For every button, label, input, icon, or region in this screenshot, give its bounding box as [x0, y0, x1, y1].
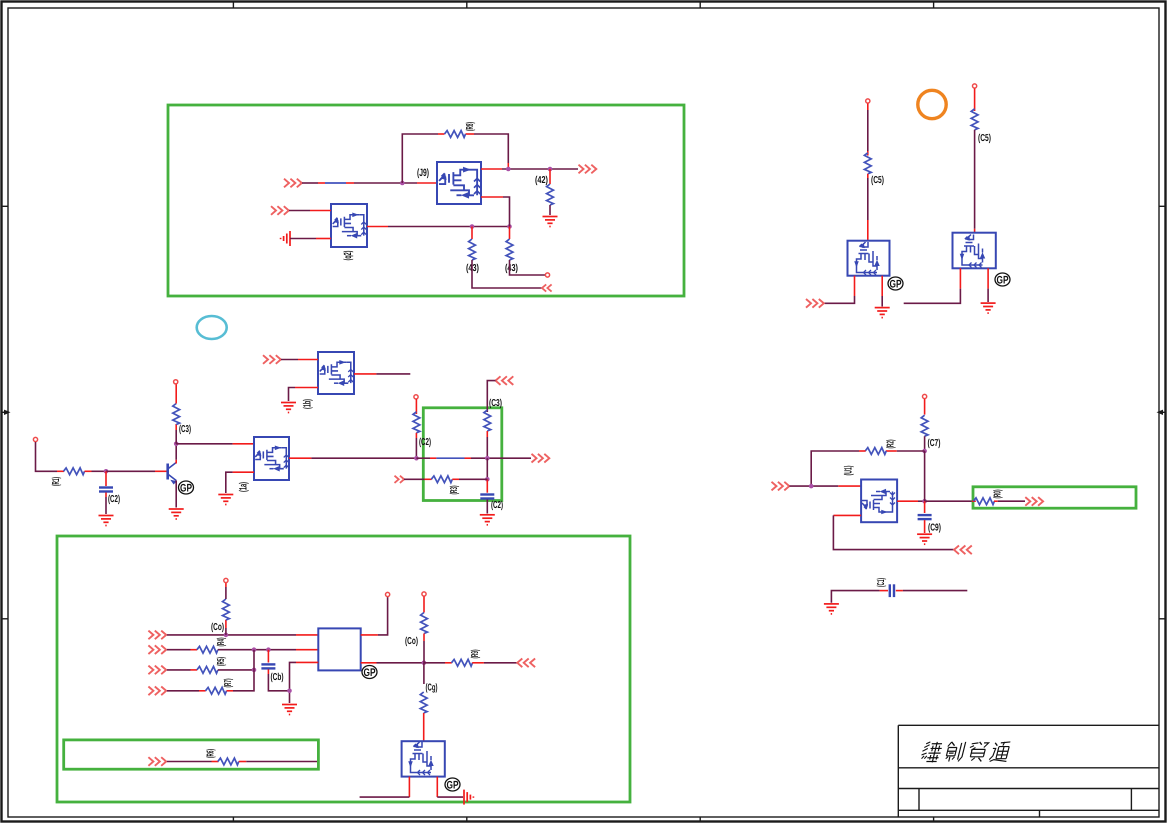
node drain junction 2	[548, 167, 553, 172]
node base junction	[104, 469, 109, 474]
green box RC	[423, 408, 502, 501]
resistor in3	[197, 667, 218, 674]
terminal B	[973, 84, 977, 88]
mosfet U right	[861, 480, 897, 523]
glyph 緯	[920, 742, 944, 762]
port chevron in top <<<	[496, 376, 514, 385]
svg-text:GP: GP	[364, 667, 376, 679]
svg-text:(C9): (C9)	[928, 523, 941, 534]
port chevron in3	[148, 666, 166, 675]
port chevron in4	[148, 687, 166, 696]
ground under C2	[99, 516, 114, 526]
node in2 j2	[266, 647, 271, 652]
svg-text:(42): (42)	[535, 175, 548, 186]
wire junction to BJT base	[106, 470, 155, 472]
wire resistor to terminal	[175, 384, 177, 404]
label GP A	[888, 277, 903, 291]
svg-text:(R8): (R8)	[465, 122, 476, 131]
svg-text:(43): (43)	[505, 263, 518, 274]
wire U pin2 loop	[833, 514, 861, 516]
wire BJT collector up	[175, 460, 177, 464]
wire in1	[167, 634, 296, 636]
svg-text:(Co): (Co)	[405, 636, 418, 647]
wire in4 to bus corner	[227, 690, 234, 692]
port chevron in1	[148, 631, 166, 640]
wire gate Q2	[289, 210, 310, 212]
resistor R42 vertical	[549, 169, 551, 184]
terminal top	[174, 380, 178, 384]
terminal A	[866, 99, 870, 103]
port chevron inner box	[148, 757, 166, 766]
svg-text:(C5): (C5)	[871, 175, 884, 186]
svg-text:(J9): (J9)	[417, 167, 429, 179]
port chevron out2 <<<	[517, 659, 535, 668]
ground emitter	[169, 509, 184, 519]
wire mid mosfet pin2 to ground	[233, 471, 254, 473]
wire BJT emitter to ground	[175, 481, 177, 508]
svg-text:(q2): (q2)	[342, 251, 354, 261]
svg-text:(1b): (1b)	[302, 399, 314, 409]
node in junction	[809, 484, 814, 489]
mosfet Q bottom	[402, 741, 445, 776]
terminal top	[923, 394, 927, 398]
wire QB pin to ground	[987, 268, 989, 288]
svg-text:(R2): (R2)	[886, 440, 897, 449]
wire pullup	[924, 399, 926, 415]
wire B down	[974, 89, 976, 112]
right ticks	[1159, 205, 1166, 207]
wire Q9 drain out	[481, 168, 502, 170]
port chevron in2	[148, 645, 166, 654]
svg-text:(R9): (R9)	[470, 650, 481, 659]
svg-text:(U1): (U1)	[843, 466, 855, 476]
glyph 創	[944, 742, 966, 762]
bottom ticks	[232, 817, 234, 822]
wire in2 to IC	[218, 649, 296, 651]
wire to junction	[85, 470, 92, 472]
wire collector resistor up	[175, 430, 177, 444]
ground rotated right	[464, 790, 473, 805]
svg-text:(C3): (C3)	[489, 398, 502, 409]
wire QA pin to ground	[881, 276, 883, 296]
series cap circuit: ground	[824, 604, 839, 614]
node junction R1v	[470, 224, 475, 229]
svg-text:(R4): (R4)	[216, 638, 227, 647]
wire mid mosfet out	[289, 457, 311, 459]
svg-text:(C3): (C3)	[179, 424, 191, 435]
svg-text:GP: GP	[180, 483, 192, 495]
ground out cap	[917, 534, 932, 544]
terminal R pullup	[414, 395, 418, 399]
svg-text:(R3): (R3)	[449, 486, 460, 495]
wire collector to mosfet gate	[176, 443, 232, 445]
wire from terminal	[36, 442, 58, 471]
wire feedback resistor	[897, 450, 925, 452]
svg-text:GP: GP	[890, 279, 902, 291]
capacitor C2 shunt	[105, 471, 107, 486]
wire IC out1 to terminal	[361, 634, 378, 636]
wire IC pin3 to ground	[296, 661, 318, 663]
resistor in2	[197, 646, 218, 653]
mosfet Q2	[331, 204, 367, 247]
wire IC out2	[361, 662, 377, 664]
mosfet U mid	[254, 437, 289, 480]
glyph 通	[989, 742, 1012, 762]
resistor B	[971, 109, 978, 130]
company logo text 緯創資通 (drawn strokes)	[920, 742, 1012, 762]
port chevron green box out	[1025, 497, 1043, 506]
resistor pullup top	[225, 628, 227, 635]
wire B to mosfet	[974, 130, 976, 229]
annotation big green box	[57, 536, 630, 802]
wire from resistor to drain node	[474, 134, 508, 163]
wire QA source to chevron	[854, 276, 856, 296]
resistor A	[864, 153, 871, 174]
svg-text:(Cg): (Cg)	[426, 683, 438, 694]
svg-text:(R0): (R0)	[993, 490, 1004, 499]
mosfet QA	[848, 241, 890, 276]
node junction R top	[922, 449, 927, 454]
resistor divider right vertical	[509, 227, 511, 240]
node out2 junction	[422, 661, 427, 666]
left mid arrow	[2, 410, 11, 415]
wire in	[790, 485, 839, 487]
wire Q2 source	[290, 238, 316, 240]
wire into green box	[972, 500, 976, 502]
wire up to feedback resistor	[402, 134, 438, 183]
resistor in4	[206, 687, 227, 694]
wire in4	[167, 690, 199, 692]
svg-text:(Cb): (Cb)	[271, 672, 284, 683]
ground B	[981, 303, 996, 313]
wire net1	[302, 182, 437, 184]
resistor divider left vertical	[471, 227, 473, 240]
transistor Q (npn)	[168, 463, 177, 485]
capacitor C bus	[267, 650, 269, 663]
node drain junction 1	[506, 167, 511, 172]
wire out2 resistor right	[424, 662, 445, 664]
wire resistor leads	[438, 133, 445, 135]
port chevron in	[772, 482, 790, 491]
wire series cap	[831, 591, 879, 603]
resistor R base	[64, 468, 85, 475]
wire out right	[925, 500, 972, 502]
wire pullup	[415, 399, 417, 414]
node junction cap	[485, 477, 490, 482]
ground IC	[282, 705, 297, 715]
node in1 junction	[224, 633, 229, 638]
svg-text:(C2): (C2)	[419, 437, 431, 448]
label GP B	[995, 273, 1010, 287]
mosfet U top-mid	[318, 352, 354, 394]
wire down to cap	[486, 458, 488, 479]
label GP bottom mosfet	[445, 778, 460, 792]
resistor inside green box	[484, 410, 491, 431]
node pin3 gnd junction	[287, 689, 292, 694]
node collector junction	[174, 442, 179, 447]
terminal pullup	[224, 578, 228, 582]
ground mid mosfet	[218, 495, 233, 505]
terminal left	[33, 437, 37, 441]
resistor R top	[445, 131, 466, 138]
ground top-mid	[281, 403, 296, 413]
capacitor out	[924, 501, 926, 513]
port chevron OUT	[579, 165, 597, 174]
resistor collector	[173, 404, 180, 425]
wire low to junction	[452, 478, 459, 480]
port chevron IN1	[284, 179, 302, 188]
wire low input	[404, 478, 425, 480]
svg-text:(R6): (R6)	[206, 749, 217, 758]
node out junction	[414, 456, 419, 461]
wire Q2 drain out	[367, 226, 388, 228]
node in3 junction	[252, 668, 257, 673]
node out junction	[922, 499, 927, 504]
wire bottom mosfet pin right to ground	[436, 777, 438, 798]
TITLE BLOCK	[898, 725, 1159, 817]
annotation inner green box	[64, 740, 319, 769]
wire in3 to bus	[218, 669, 254, 671]
wire top-mid pin2 to ground	[295, 387, 318, 389]
node junction R2v	[507, 224, 512, 229]
port chevron loop <<<	[954, 546, 972, 555]
port chevron A	[806, 299, 824, 308]
wire out net colored	[416, 457, 531, 459]
mosfet Q9	[437, 162, 481, 204]
resistor inner box	[218, 758, 239, 765]
svg-text:(C1): (C1)	[876, 578, 887, 587]
resistor low	[431, 476, 452, 483]
svg-text:(R7): (R7)	[223, 679, 234, 688]
wire in3	[167, 669, 191, 671]
wire in2	[167, 649, 191, 651]
right mid arrow	[1157, 410, 1166, 415]
wire right pullup	[423, 597, 425, 613]
wire to terminal	[510, 260, 546, 275]
svg-text:(C7): (C7)	[928, 438, 941, 449]
wire Q9 source down	[481, 196, 503, 198]
wire gate top-mid	[281, 359, 298, 361]
capacitor green box	[480, 495, 494, 499]
top ticks	[232, 2, 234, 9]
terminal IC out	[386, 592, 390, 596]
wire A down	[867, 104, 869, 111]
mosfet QB	[953, 233, 996, 269]
wire bottom mosfet source left	[408, 777, 410, 798]
annotation green box	[168, 105, 684, 296]
label GP IC	[362, 666, 377, 680]
port chevron out	[532, 454, 550, 463]
wire inner box right	[239, 761, 247, 763]
capacitor series	[890, 584, 894, 597]
wire QB source left	[959, 268, 961, 288]
wire from top chevron	[487, 381, 495, 412]
terminal right pullup	[422, 592, 426, 596]
svg-text:(R5): (R5)	[216, 657, 227, 666]
wire to chevron low	[472, 260, 543, 288]
ground A	[875, 308, 890, 318]
port chevron in low >>	[395, 476, 405, 483]
svg-text:(R1): (R1)	[51, 477, 62, 486]
svg-text:GP: GP	[447, 780, 459, 792]
glyph 資	[966, 742, 989, 762]
wire inner box	[167, 761, 212, 763]
svg-text:GP: GP	[997, 275, 1009, 287]
left ticks	[2, 205, 9, 207]
wire between junctions	[924, 451, 926, 501]
ground green box	[480, 515, 495, 525]
wire top-mid out	[354, 373, 376, 375]
wire A to mosfet	[867, 174, 869, 178]
port chevron low <&lt;	[542, 284, 552, 291]
wire down to mosfet	[423, 663, 425, 684]
svg-text:(Co): (Co)	[211, 622, 224, 633]
port chevron gate top-mid	[263, 355, 281, 364]
node junction	[400, 181, 405, 186]
svg-text:(C2): (C2)	[491, 500, 503, 511]
wire out	[897, 500, 918, 502]
svg-text:(C5): (C5)	[978, 133, 991, 144]
svg-text:(C2): (C2)	[108, 494, 120, 505]
node in2 j1	[252, 647, 257, 652]
node junction green box	[485, 456, 490, 461]
orange circle mark	[918, 90, 946, 118]
green box right	[973, 487, 1136, 508]
IC U box	[318, 628, 360, 670]
svg-text:(1a): (1a)	[238, 482, 250, 492]
wire series cap right	[896, 590, 903, 592]
label GP bjt	[179, 481, 194, 495]
ground (rotated left) at Q2 source	[281, 231, 290, 246]
terminal circle	[545, 273, 549, 277]
ground under R42	[543, 217, 558, 227]
port chevron IN2	[271, 206, 289, 215]
